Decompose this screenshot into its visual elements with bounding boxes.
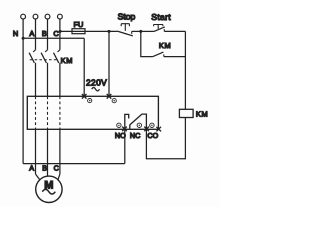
terminal circle B [45,14,50,19]
wire B lower [47,63,49,97]
contactor KM pole B upper tick [45,50,47,52]
wire right rail down [184,31,186,109]
wire N vertical [22,19,24,164]
terminal circle N [21,14,26,19]
switch lever [130,114,147,129]
svg-text:220V: 220V [86,78,107,88]
svg-text:KM: KM [196,109,209,118]
contactor KM pole B lever [41,53,46,63]
wire Start to right rail [164,30,185,32]
terminal circle 1 [117,123,121,127]
motor circle [36,176,62,202]
terminal circle 3 [150,123,154,127]
svg-text:KM: KM [61,56,74,65]
terminal circle C [58,14,63,19]
pushbutton Start right contact tick [163,29,165,31]
svg-text:Start: Start [151,12,171,22]
wire coil to CO loop [146,118,185,159]
wire Stop to junction [132,30,141,32]
wire A upper [35,19,37,50]
fuse FU [72,29,85,34]
wire C lower [59,63,61,97]
contactor linkage dashed [30,59,58,61]
wire C below module [59,129,61,174]
contact KM aux lever [153,52,164,57]
contactor KM pole C upper tick [58,50,60,52]
wire A into motor [36,174,40,180]
wire B dashed inside module [47,96,49,129]
pushbutton Stop lever [117,31,133,36]
switch lever stub [129,125,131,129]
screw left 220V [88,99,92,103]
svg-text:C: C [53,29,59,38]
wire C into motor [58,174,60,180]
svg-text:KM: KM [159,41,172,50]
svg-text:A: A [29,29,34,38]
svg-text:N: N [13,29,18,38]
screw right 220V [112,99,116,103]
wire KM aux branch down and across [141,31,153,56]
svg-text:NC: NC [130,131,141,140]
pushbutton Stop right contact tick [131,31,133,34]
wire B below module [47,129,49,176]
wire NO drop [124,129,126,164]
module box [27,96,158,129]
pushbutton Stop plunger [121,24,129,31]
wire fuse line [60,30,117,32]
wire A dashed inside module [35,96,37,129]
wire junction to Start [141,30,154,32]
node fuse-line drop junction [108,30,111,33]
wire B upper [47,19,49,50]
contactor KM pole C lever [54,53,59,63]
wire N bottom horizontal to NO [23,163,125,165]
pushbutton Start plunger [154,25,163,29]
motor tilde [42,189,55,194]
svg-text:A: A [29,163,34,172]
wire fuse-line drop to module [108,31,110,96]
svg-text:B: B [42,163,47,172]
wire KM aux to right rail [164,56,186,58]
pushbutton Start lever [154,27,165,32]
terminal X NO [122,127,127,132]
contactor KM pole A upper tick [33,50,35,52]
contact KM aux right tick [163,54,165,56]
terminal circle A [33,14,38,19]
node N bus junction [22,37,25,40]
svg-text:B: B [42,29,47,38]
contactor KM pole A lever [29,53,34,63]
terminal X right 220V [107,94,112,99]
terminal X CO [156,127,161,132]
node start branch junction [139,30,142,33]
switch NO post [125,114,129,128]
node C fuse tap [59,30,62,33]
wire A below module [35,129,37,174]
wire N bus drop to module [83,38,85,96]
svg-text:FU: FU [74,20,84,29]
terminal X NC [144,127,149,132]
label AC tilde [92,88,100,91]
svg-text:C: C [54,163,59,172]
svg-text:NO: NO [115,131,126,140]
wire A lower [35,63,37,97]
terminal X left 220V [82,94,87,99]
svg-text:Stop: Stop [118,12,136,22]
svg-text:CO: CO [147,131,158,140]
wire C upper [59,19,61,50]
wire N bus [23,37,84,39]
wire C dashed inside module [59,96,61,129]
coil KM [179,109,193,117]
terminal circle 2 [137,123,141,127]
